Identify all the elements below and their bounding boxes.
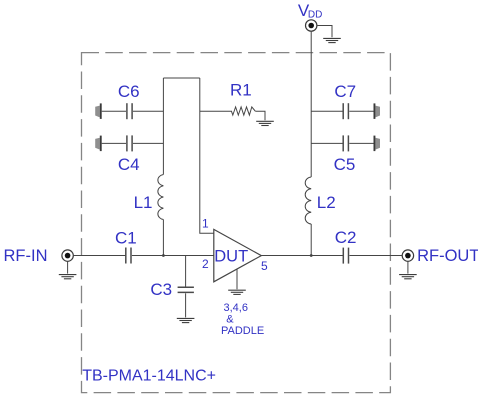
wire RF-IN ground stem [67,261,69,273]
inductor L1 [158,175,164,220]
svg-text:L2: L2 [317,193,336,212]
DUT ground pins note [221,302,264,337]
wire C5 row left [311,142,343,144]
test board dashed outline [82,53,391,393]
ground (RF-OUT connector) [399,275,417,279]
capacitor C4 [127,135,132,151]
svg-text:C1: C1 [115,229,137,248]
svg-text:R1: R1 [230,81,252,100]
connector J-RFOUT [402,250,413,261]
svg-text:3,4,6: 3,4,6 [224,302,248,314]
port stub at C4 [95,136,102,152]
ground (R1) [256,121,274,125]
svg-text:RF-OUT: RF-OUT [417,247,478,265]
wire C4 row right [133,142,163,144]
capacitor C1 [126,248,131,264]
connector J-VDD [306,20,317,31]
wire DUT ground stem [236,269,238,289]
node: L1 to input line junction [162,254,165,257]
capacitor C6 [127,103,132,119]
svg-text:DUT: DUT [214,247,248,265]
wire C5 row right [349,142,373,144]
svg-text:C7: C7 [334,82,356,101]
svg-text:PADDLE: PADDLE [221,325,264,337]
svg-text:C5: C5 [334,155,356,174]
ground (VDD decoupling) [323,38,341,42]
capacitor C2 [343,248,348,264]
wire VDD to ground tap [317,26,332,38]
svg-text:RF-IN: RF-IN [4,247,48,265]
svg-text:DD: DD [308,10,322,21]
net VDD label [298,1,322,21]
wire left bias column upper [162,78,164,175]
wire C4 row left [102,142,126,144]
node: L2 to output line junction [310,254,313,257]
resistor R1 [232,107,256,115]
svg-text:C4: C4 [118,155,140,174]
connector J-RFIN [62,250,73,261]
wire C3 stem lower [185,293,187,317]
ground (C3) [177,318,195,322]
wire R1 right to ground [256,111,266,120]
svg-text:C3: C3 [150,280,172,299]
wire C6 row right [133,110,163,112]
svg-text:1: 1 [202,216,209,230]
capacitor C5 [343,135,348,151]
capacitor C7 [343,103,348,119]
wire C6 row left [102,110,126,112]
wire RF-IN to C1 [73,255,125,257]
ground (RF-IN connector) [59,275,77,279]
ground (DUT pins 3,4,6 & paddle) [228,290,246,294]
svg-text:&: & [226,313,234,325]
port stub at C6 [95,103,102,119]
wire C7 row left [311,110,343,112]
svg-text:2: 2 [202,257,209,271]
wire VDD rail down (lower) [310,224,312,256]
wire C2 to RF-OUT [349,255,402,257]
wire DUT out to C2 [261,255,343,257]
wire right bias column [200,78,214,233]
svg-text:C2: C2 [335,228,357,247]
wire C7 row right [349,110,373,112]
wire RF-OUT ground stem [407,261,409,273]
wire bias network top link [163,77,199,79]
wire C1 to DUT pin2 [132,255,214,257]
svg-text:5: 5 [261,259,268,273]
wire C3 stem upper [185,256,187,287]
svg-text:C6: C6 [118,82,140,101]
op-amp DUT (amplifier triangle) [214,229,261,281]
capacitor C3 [178,287,194,292]
port stub at C5 [374,136,381,152]
inductor L2 [305,177,311,224]
wire left bias column lower [162,220,164,256]
port stub at C7 [374,103,381,119]
svg-text:TB-PMA1-14LNC+: TB-PMA1-14LNC+ [82,368,216,385]
wire R1 left [200,110,232,112]
svg-text:L1: L1 [134,193,153,212]
wire VDD rail down (upper) [310,31,312,177]
